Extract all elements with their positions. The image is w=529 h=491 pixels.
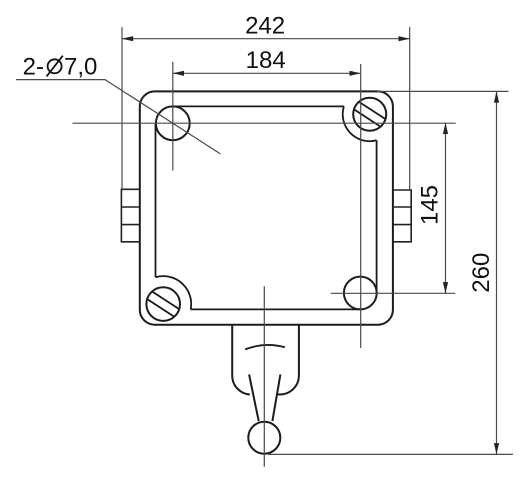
outer body outline xyxy=(140,91,393,324)
screw top-right xyxy=(353,98,386,131)
lever left edge xyxy=(249,375,259,422)
actuator boot arc xyxy=(245,345,285,349)
center line vertical actuator xyxy=(263,286,265,467)
extension line 242 right xyxy=(409,27,411,190)
inner cover outline top edge xyxy=(173,105,344,107)
inner cover notch arc around screw top-right xyxy=(343,106,377,141)
center line horizontal bottom-right hole xyxy=(331,292,456,294)
svg-text:7,0: 7,0 xyxy=(64,53,97,80)
extension line 260 bottom (ball tangent baseline) xyxy=(268,453,513,455)
extension line 242 left xyxy=(121,27,123,189)
dimension line 242 xyxy=(122,36,410,41)
dimension line 184 xyxy=(173,71,361,76)
actuator bell right side xyxy=(278,325,299,395)
svg-text:145: 145 xyxy=(416,185,443,225)
svg-text:260: 260 xyxy=(468,253,495,293)
inner cover outline left edge xyxy=(155,123,157,277)
mounting hole bottom-right xyxy=(344,277,377,310)
cable entry tab left xyxy=(121,189,139,242)
svg-text:242: 242 xyxy=(245,12,285,39)
inner cover outline right edge xyxy=(376,140,378,293)
center line vertical right holes xyxy=(360,64,362,348)
inner cover notch arc around screw bottom-left xyxy=(156,276,192,309)
actuator bell left side xyxy=(232,325,250,395)
ball tip xyxy=(248,422,280,454)
center line horizontal top holes xyxy=(73,122,456,124)
lever right edge xyxy=(272,375,280,422)
svg-text:184: 184 xyxy=(246,47,286,74)
center line vertical top-left hole xyxy=(172,62,174,171)
dimension line 145 xyxy=(443,123,448,293)
label text 2-dia7,0 xyxy=(23,53,98,80)
cable entry tab right xyxy=(393,190,411,242)
dimension line 260 xyxy=(494,91,499,454)
leader line 2-dia7.0 xyxy=(16,80,221,154)
inner cover outline bottom edge xyxy=(191,308,361,310)
mounting hole top-left xyxy=(156,106,190,140)
svg-text:2-: 2- xyxy=(23,53,44,80)
extension line 260 top xyxy=(377,90,508,92)
screw bottom-left xyxy=(146,287,180,321)
